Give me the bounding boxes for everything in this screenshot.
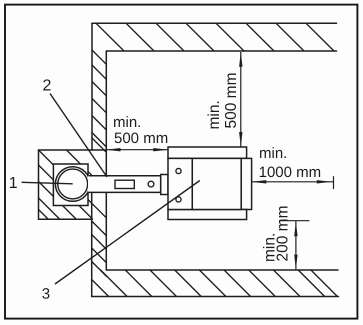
boiler back panel [241,158,251,209]
svg-text:2: 2 [42,78,51,95]
boiler bolt lower [176,197,181,202]
svg-text:200 mm: 200 mm [275,206,292,262]
svg-text:min.: min. [259,145,287,162]
svg-text:3: 3 [42,286,50,303]
svg-text:500 mm: 500 mm [223,73,240,129]
top wall hatch [96,23,334,51]
svg-text:1: 1 [9,175,18,192]
left wall outer face lower [91,192,93,296]
dimension min.500mm vertical [239,52,242,147]
floor hatch [92,270,337,297]
left wall hatch lower band [92,221,107,276]
dimension min.200mm vertical [279,221,310,270]
burner front plate [53,164,88,206]
boiler front face [192,158,241,209]
boiler bottom band [168,210,247,220]
arm hole detail [148,181,154,187]
arm slot detail [115,180,134,188]
svg-text:500 mm: 500 mm [114,130,168,147]
floor outline [92,270,339,297]
svg-text:min.: min. [206,100,223,129]
boiler top band [168,147,247,158]
boiler left panel [168,158,192,209]
leader line 2 [50,94,107,178]
arm flange at boiler [161,175,168,195]
left wall hatch upper band [92,50,106,152]
left wall inner face below arm [105,192,107,270]
block hatch [39,150,106,219]
burner fan housing inner circle [58,169,88,199]
burner fan housing outer circle [55,167,90,202]
boiler bolt upper [176,168,181,173]
burner tube arm [88,176,161,193]
top wall outline [92,23,337,51]
dimension min.1000mm horizontal [252,176,334,189]
burner mounting block outline [39,150,106,219]
svg-text:1000 mm: 1000 mm [259,164,322,181]
left wall outer face upper [91,23,93,150]
left wall inner face above arm [105,51,107,176]
leader line 3 [55,181,200,285]
dimension min.500mm horizontal [106,148,168,151]
svg-text:min.: min. [113,114,141,131]
leader line 1 [22,182,73,184]
